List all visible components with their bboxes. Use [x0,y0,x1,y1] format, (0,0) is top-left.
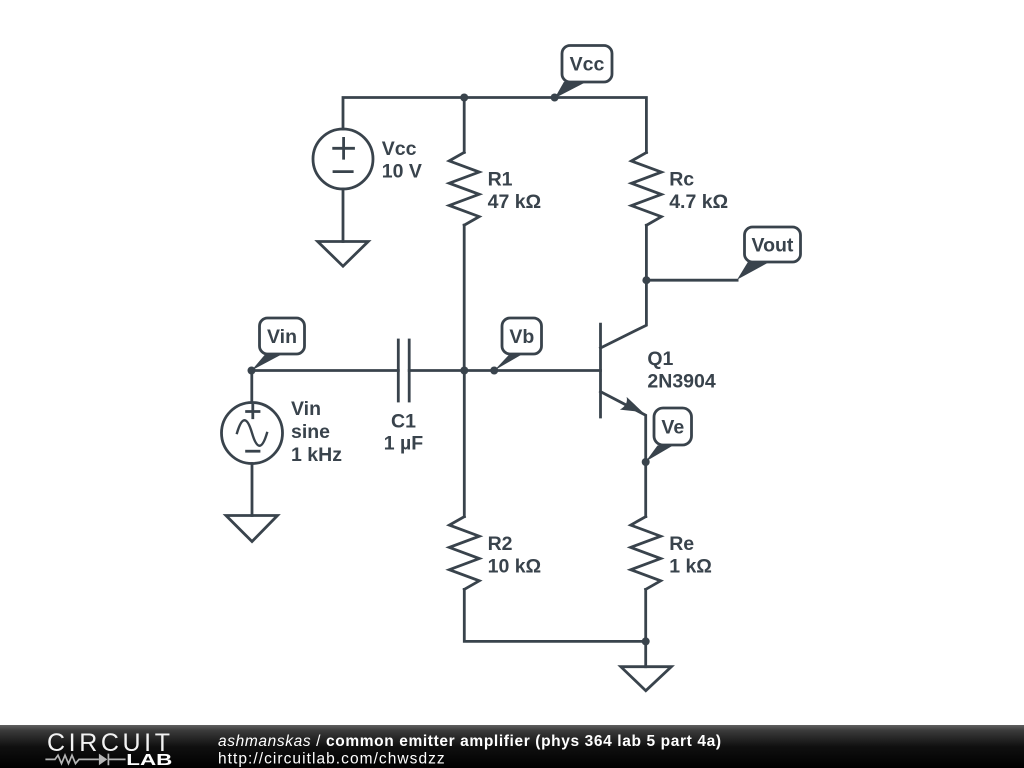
resistor Rc zigzag [631,153,661,226]
svg-text:2N3904: 2N3904 [647,371,715,393]
svg-text:R1: R1 [488,169,513,191]
voltage source V1 Vcc circle [313,129,373,189]
flag pointer Vin [252,355,282,371]
flag box Ve [654,408,692,445]
wire base: Vin node to C1 left plate [252,369,399,372]
transistor Q1 emitter arrowhead [620,397,643,412]
wire Re bottom to ground node [644,589,647,666]
ground (under Vcc source) [318,242,369,267]
V1 plus sign [334,138,354,158]
V2 sine wave [237,420,267,446]
svg-text:1 µF: 1 µF [384,433,423,455]
svg-text:Vin: Vin [291,398,321,420]
svg-text:Ve: Ve [661,416,684,438]
svg-text:Re: Re [669,533,694,555]
wire base node down to R2 [463,371,466,517]
resistor R1 zigzag [449,152,479,225]
svg-text:Vcc: Vcc [382,138,417,160]
resistor R2 zigzag [449,517,479,590]
svg-text:LAB: LAB [126,752,172,768]
svg-text:47 kΩ: 47 kΩ [488,191,542,213]
V1 minus sign [334,170,352,173]
svg-text:Vin: Vin [267,326,297,348]
node dot Vcc rail [551,94,559,102]
svg-text:10 kΩ: 10 kΩ [488,555,542,577]
svg-text:1 kHz: 1 kHz [291,444,342,466]
flag pointer Vcc [555,82,587,99]
wire top rail to R1 [463,98,466,153]
wire R2 bottom to ground rail [464,589,645,641]
wire top rail Vcc [343,98,646,153]
voltage source V2 Vin circle [222,403,283,464]
wire V2 bottom to ground [251,464,254,516]
svg-text:C1: C1 [391,411,416,433]
V2 minus sign [247,450,259,453]
ground (under Vin source) [226,516,278,542]
svg-text:http://circuitlab.com/chwsdzz: http://circuitlab.com/chwsdzz [218,751,446,768]
wire R1 bottom to base node [463,225,466,370]
node dot ground rail [642,637,650,645]
flag pointer Vb [494,354,522,370]
node dot Vin [248,367,256,375]
node dot Vb [490,367,498,375]
svg-text:4.7 kΩ: 4.7 kΩ [669,191,728,213]
node dot base junction [460,367,468,375]
flag pointer Vout [737,262,769,280]
V2 plus sign [247,405,259,417]
ground (bottom right) [621,667,672,691]
svg-text:ashmanskas / common emitter am: ashmanskas / common emitter amplifier (p… [218,733,722,750]
CircuitLab logo resistor-diode glyph [45,754,125,766]
wire Rc bottom to collector node [645,225,648,280]
footer bar [0,725,1024,768]
svg-text:Q1: Q1 [647,348,673,370]
svg-text:Vout: Vout [752,234,794,256]
flag box Vb [502,318,542,354]
wire Vin node down to source [250,371,253,403]
transistor Q1 base bar [599,324,602,417]
flag box Vcc [562,46,612,83]
wire emitter node to Re [644,462,647,517]
svg-text:1 kΩ: 1 kΩ [669,555,712,577]
svg-text:R2: R2 [488,533,513,555]
wire V1 bottom to ground [342,189,345,242]
node dot R1 top [460,94,468,102]
resistor Re zigzag [631,517,661,590]
node dot Ve [642,458,650,466]
svg-text:Rc: Rc [669,169,694,191]
flag box Vin [260,318,305,354]
transistor Q1 collector lead [601,280,647,348]
svg-text:Vcc: Vcc [570,54,605,76]
wire collector node to Vout flag [646,279,737,282]
transistor Q1 emitter lead [601,392,646,462]
svg-text:Vb: Vb [509,326,534,348]
capacitor C1 left plate [397,340,400,401]
wire C1 right plate to base bar [409,369,600,372]
capacitor C1 right plate [408,340,411,401]
svg-text:sine: sine [291,421,330,443]
node dot collector [642,276,650,284]
svg-text:10 V: 10 V [382,161,422,183]
flag box Vout [745,227,801,262]
flag pointer Ve [646,446,673,462]
